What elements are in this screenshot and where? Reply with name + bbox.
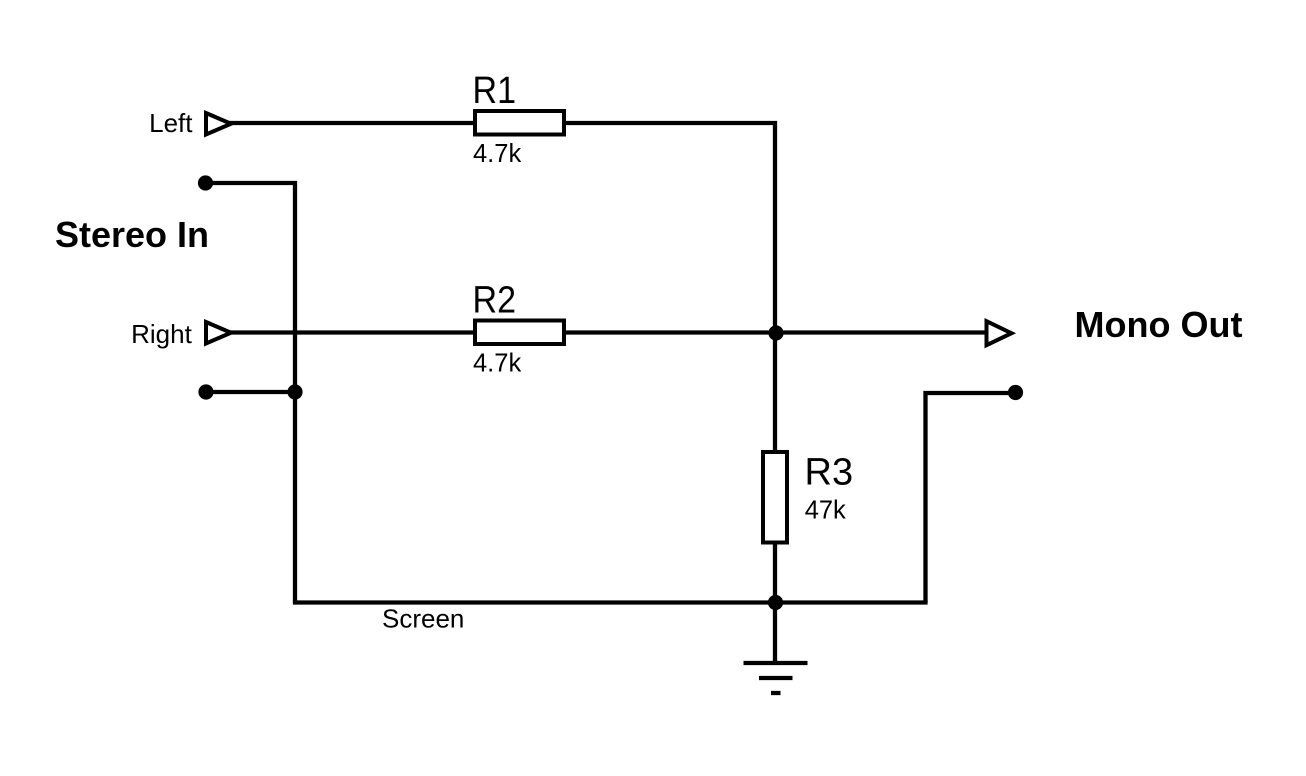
wire right sleeve dot to stereo bus: [206, 390, 295, 394]
wire Right input to R2: [229, 330, 473, 334]
input terminal Left arrow: [206, 113, 231, 135]
wire ground bus (Screen): [293, 600, 928, 604]
svg-text:Right: Right: [131, 319, 192, 349]
resistor R3: [763, 452, 787, 543]
node dot: output sleeve terminal: [1008, 385, 1023, 400]
resistor R1: [475, 111, 564, 135]
input terminal Right arrow: [206, 322, 231, 344]
svg-text:Left: Left: [149, 108, 193, 138]
ground symbol bar 2: [759, 676, 793, 680]
svg-text:4.7k: 4.7k: [473, 350, 521, 378]
svg-text:Stereo In: Stereo In: [55, 214, 209, 255]
resistor R2: [475, 321, 564, 345]
wire left sleeve dot to stereo bus: [206, 183, 296, 603]
wire ground bus up to output sleeve: [926, 393, 1016, 603]
node dot: mono summing node: [768, 325, 783, 340]
wire mono node down to R3: [773, 333, 777, 452]
wire R3 to ground bus: [773, 543, 777, 603]
wire Left input to R1: [229, 121, 473, 125]
svg-text:4.7k: 4.7k: [473, 140, 521, 168]
wire R2 to output arrow: [566, 330, 987, 334]
node dot: right sleeve terminal: [198, 384, 213, 399]
output terminal arrow: [987, 321, 1012, 345]
node dot: left sleeve terminal: [198, 175, 213, 190]
node dot: stereo bus junction: [287, 384, 302, 399]
svg-text:Mono Out: Mono Out: [1075, 304, 1243, 345]
svg-text:R1: R1: [473, 70, 517, 112]
svg-text:47k: 47k: [805, 497, 846, 525]
svg-text:Screen: Screen: [382, 604, 464, 634]
svg-text:R3: R3: [805, 452, 854, 494]
wire ground stem: [773, 603, 777, 664]
node dot: ground junction: [768, 595, 783, 610]
wire R1 to mono node (corner at top right): [566, 123, 775, 333]
ground symbol bar 1: [744, 661, 808, 665]
ground symbol bar 3: [771, 691, 781, 695]
svg-text:R2: R2: [473, 280, 517, 322]
